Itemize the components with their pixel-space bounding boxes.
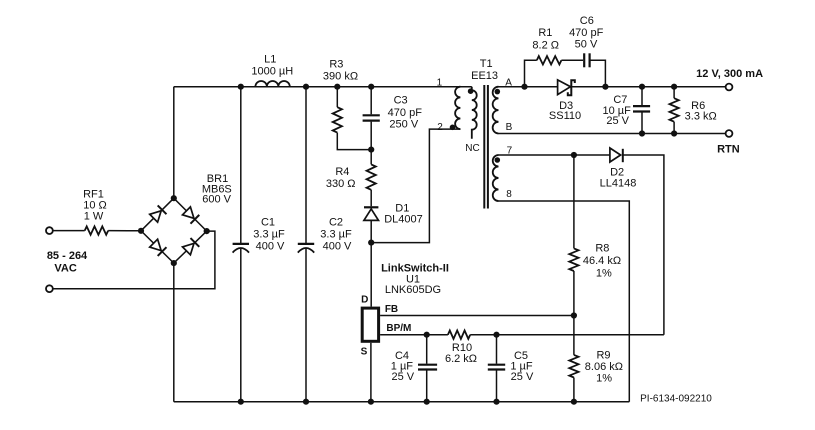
node R6 top — [671, 84, 677, 90]
resistor R6 — [673, 87, 675, 99]
svg-text:RF1: RF1 — [83, 188, 104, 200]
svg-text:DL4007: DL4007 — [384, 213, 423, 225]
node C7 bottom — [639, 130, 645, 136]
node output RTN terminal — [726, 130, 733, 137]
wire top HV rail — [174, 86, 472, 88]
wire bottom rail — [174, 401, 630, 403]
node FB junction — [571, 312, 577, 318]
node drain junction — [368, 240, 374, 246]
wire bridge to bottom rail — [173, 263, 175, 402]
svg-text:T1: T1 — [480, 58, 493, 70]
T1 primary polarity dot — [450, 125, 456, 131]
svg-text:VAC: VAC — [54, 263, 76, 275]
node bridge bottom — [171, 260, 177, 266]
T1 secondary polarity dot — [495, 89, 501, 95]
svg-text:400 V: 400 V — [323, 241, 352, 253]
svg-text:85 - 264: 85 - 264 — [47, 250, 88, 262]
svg-text:R8: R8 — [595, 242, 609, 254]
diode BR1 bottom-right — [182, 238, 199, 255]
T1 primary pin2 wire — [371, 129, 460, 243]
svg-text:RTN: RTN — [717, 143, 740, 155]
svg-text:3.3 µF: 3.3 µF — [320, 229, 352, 241]
svg-text:25 V: 25 V — [391, 371, 414, 383]
svg-text:1%: 1% — [596, 373, 612, 385]
node R3 C3 junction — [368, 147, 374, 153]
capacitor C1 — [240, 87, 242, 243]
wire — [53, 230, 85, 232]
node AC input N terminal — [46, 285, 53, 292]
node C1 top — [238, 84, 244, 90]
node C5 bottom — [493, 399, 499, 405]
svg-text:B: B — [506, 122, 513, 133]
resistor RF1 — [85, 226, 109, 234]
svg-text:C3: C3 — [394, 95, 408, 107]
node bridge right — [204, 228, 210, 234]
svg-text:1: 1 — [437, 77, 443, 88]
resistor R1 — [537, 56, 562, 64]
node bridge left — [138, 228, 144, 234]
T1 shield winding NC — [472, 87, 477, 139]
svg-text:R3: R3 — [329, 59, 343, 71]
svg-text:8: 8 — [506, 189, 512, 200]
svg-text:600 V: 600 V — [202, 194, 231, 206]
T1 NC polarity dot — [468, 88, 474, 94]
svg-text:R9: R9 — [596, 349, 610, 361]
node R9 bottom — [571, 399, 577, 405]
inductor L1 — [255, 81, 289, 87]
T1 bias winding — [493, 155, 499, 201]
wire FB — [380, 315, 574, 317]
resistor R3 — [336, 87, 338, 108]
svg-text:46.4 kΩ: 46.4 kΩ — [583, 255, 621, 267]
svg-text:LNK605DG: LNK605DG — [385, 284, 441, 296]
T1 primary winding — [455, 87, 460, 129]
node bias divider top — [571, 152, 577, 158]
capacitor C6 — [583, 53, 585, 67]
node source bottom — [368, 399, 374, 405]
svg-text:8.2 Ω: 8.2 Ω — [532, 40, 559, 52]
bridge rectifier BR1 frame — [141, 198, 207, 263]
diode BR1 bottom-left — [149, 239, 166, 256]
node C7 top — [639, 84, 645, 90]
capacitor C5 — [496, 335, 498, 364]
node R3 top — [334, 84, 340, 90]
wire pin7 — [499, 154, 610, 156]
svg-text:3.3 kΩ: 3.3 kΩ — [685, 110, 717, 122]
node BPM C4 — [424, 332, 430, 338]
resistor R8 — [573, 155, 575, 248]
T1 secondary winding — [493, 87, 499, 134]
svg-text:390 kΩ: 390 kΩ — [323, 71, 358, 83]
wire pin8 — [499, 201, 630, 402]
T1 core — [483, 85, 485, 209]
svg-text:L1: L1 — [264, 54, 276, 66]
svg-text:FB: FB — [385, 304, 398, 315]
capacitor C2 — [305, 87, 307, 243]
node C3 top — [368, 84, 374, 90]
capacitor C7 — [641, 87, 643, 105]
capacitor C3 — [370, 87, 372, 115]
T1 bias polarity dot — [495, 157, 501, 163]
wire secondary B return — [499, 133, 726, 135]
svg-text:NC: NC — [465, 143, 479, 154]
svg-text:PI-6134-092210: PI-6134-092210 — [640, 394, 712, 405]
svg-text:LL4148: LL4148 — [600, 177, 637, 189]
diode BR1 top-right — [182, 206, 199, 223]
svg-text:25 V: 25 V — [511, 371, 534, 383]
resistor R10 — [448, 331, 470, 339]
node R6 bottom — [671, 130, 677, 136]
node snubber left — [521, 84, 527, 90]
node C1 bottom — [238, 399, 244, 405]
node BPM C5 — [493, 332, 499, 338]
capacitor C4 — [426, 335, 428, 364]
node snubber right — [602, 84, 608, 90]
svg-text:250 V: 250 V — [389, 119, 418, 131]
svg-text:D: D — [361, 294, 368, 305]
node C2 bottom — [303, 399, 309, 405]
wire source — [370, 343, 372, 402]
wire D2 to BP — [623, 155, 664, 335]
svg-text:470 pF: 470 pF — [569, 27, 604, 39]
node C2 top — [303, 84, 309, 90]
resistor R9 — [569, 355, 578, 378]
wire output rail — [571, 86, 725, 88]
svg-text:1%: 1% — [596, 268, 612, 280]
wire drain — [370, 243, 372, 307]
wire bridge to top rail — [173, 87, 175, 199]
node C4 bottom — [424, 399, 430, 405]
diode D2 — [610, 148, 621, 162]
diode D3 — [558, 80, 571, 95]
svg-text:3.3 µF: 3.3 µF — [253, 229, 285, 241]
wire secondary A — [499, 86, 558, 88]
diode BR1 top-left — [149, 205, 166, 222]
svg-text:1 W: 1 W — [84, 210, 104, 222]
svg-text:1000 µH: 1000 µH — [251, 65, 293, 77]
svg-text:400 V: 400 V — [256, 241, 285, 253]
resistor R4 — [370, 150, 372, 165]
svg-text:50 V: 50 V — [575, 39, 598, 51]
wire — [53, 231, 215, 289]
svg-text:C2: C2 — [329, 217, 343, 229]
op-amp U1 LNK605DG body — [362, 308, 378, 341]
svg-text:LinkSwitch-II: LinkSwitch-II — [381, 262, 449, 274]
svg-text:C6: C6 — [580, 15, 594, 27]
node bridge top — [171, 195, 177, 201]
node AC input L terminal — [46, 227, 53, 234]
svg-text:2: 2 — [437, 122, 443, 133]
svg-text:330 Ω: 330 Ω — [326, 178, 356, 190]
svg-text:C1: C1 — [261, 217, 275, 229]
svg-text:SS110: SS110 — [549, 110, 581, 122]
svg-text:BP/M: BP/M — [386, 323, 411, 334]
svg-text:12 V, 300 mA: 12 V, 300 mA — [696, 68, 763, 80]
svg-text:EE13: EE13 — [471, 70, 498, 82]
svg-text:R4: R4 — [335, 166, 349, 178]
wire BPM left — [380, 334, 448, 336]
svg-text:S: S — [361, 347, 368, 358]
node output + terminal — [726, 84, 733, 91]
svg-text:R1: R1 — [538, 27, 552, 39]
snubber wires — [525, 60, 537, 86]
svg-text:25 V: 25 V — [606, 115, 629, 127]
wire — [108, 230, 141, 232]
svg-text:8.06 kΩ: 8.06 kΩ — [585, 361, 623, 373]
svg-text:6.2 kΩ: 6.2 kΩ — [445, 353, 477, 365]
diode D1 — [364, 206, 378, 208]
wire BPM right — [470, 334, 664, 336]
svg-text:470 pF: 470 pF — [388, 107, 423, 119]
